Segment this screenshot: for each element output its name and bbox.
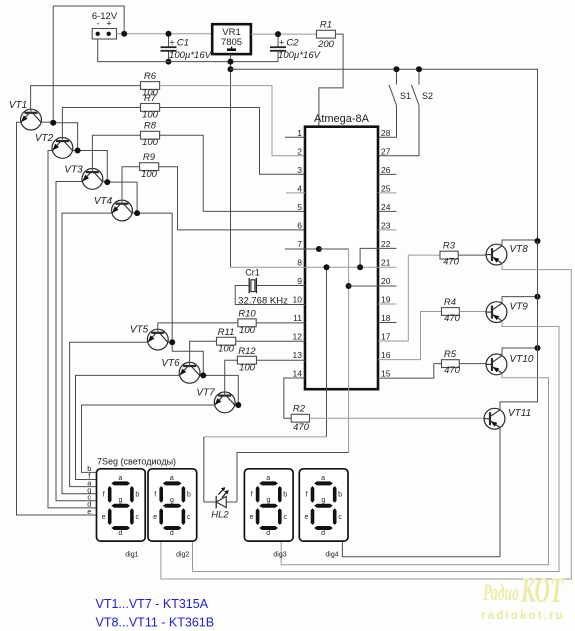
wire VT2 collector (73, 150, 78, 152)
wire chain VT2-VT3 (78, 151, 108, 183)
svg-text:470: 470 (443, 257, 460, 268)
svg-text:a: a (321, 475, 325, 482)
svg-text:7805: 7805 (221, 37, 242, 48)
wire R1 to VCC (319, 34, 343, 249)
pin 24 stub (378, 210, 397, 212)
svg-text:VT4: VT4 (94, 196, 113, 207)
svg-text:7Seg (светодиоды): 7Seg (светодиоды) (97, 457, 176, 467)
wire pin8 GND line (231, 266, 397, 268)
wire VT4 collector (132, 212, 137, 214)
wire pin15 to R5 (378, 364, 442, 379)
node VT1 collector (50, 120, 56, 126)
resistor R10 (238, 319, 256, 327)
svg-text:8: 8 (297, 257, 302, 267)
svg-text:VT10: VT10 (510, 354, 534, 365)
node HL2 gnd junction (324, 264, 330, 270)
svg-text:R11: R11 (218, 327, 235, 338)
svg-text:+: + (106, 19, 111, 29)
wire chain VT5-VT6 (172, 342, 203, 375)
wire chain VT4-VT5 (137, 213, 172, 342)
wire + rail (117, 33, 213, 35)
wire HL2 anode (236, 453, 238, 503)
transistor VT1 (21, 109, 42, 130)
svg-text:13: 13 (293, 350, 303, 360)
node + input junction (121, 31, 127, 37)
wire HL2 cathode drop (203, 437, 205, 502)
svg-text:VT9: VT9 (510, 302, 529, 313)
svg-text:10: 10 (293, 294, 303, 304)
wire pin20 AVCC (349, 285, 397, 287)
wire R7 left to VT2 base (62, 108, 140, 138)
svg-text:11: 11 (293, 313, 302, 323)
wire R6 left to VT1 base (31, 86, 141, 110)
svg-text:470: 470 (444, 313, 461, 324)
transistor VT2 (52, 138, 73, 159)
svg-text:S2: S2 (422, 91, 433, 101)
resistor R6 (141, 82, 160, 90)
svg-text:f: f (306, 492, 308, 499)
svg-text:470: 470 (444, 365, 461, 376)
pin 25 stub (378, 192, 397, 194)
node AVCC pin20 (346, 283, 352, 289)
node C1 bottom (166, 59, 172, 65)
wire VT6 emitter to f (76, 375, 180, 479)
svg-text:b: b (135, 492, 139, 499)
svg-text:Cr1: Cr1 (245, 268, 260, 278)
svg-text:2: 2 (297, 146, 302, 156)
svg-text:f: f (154, 492, 156, 499)
wire R12 right to pin13 (257, 359, 306, 361)
svg-text:200: 200 (317, 39, 335, 50)
resistor R1 (317, 30, 336, 38)
svg-text:d: d (118, 530, 122, 537)
resistor R8 (141, 131, 160, 139)
svg-text:VT11: VT11 (508, 408, 531, 419)
svg-text:100: 100 (218, 344, 235, 355)
svg-text:dig4: dig4 (325, 552, 338, 559)
svg-text:f: f (103, 492, 105, 499)
svg-text:9: 9 (297, 276, 302, 286)
svg-text:b: b (338, 492, 342, 499)
svg-text:3: 3 (297, 165, 302, 175)
node S2 rail (416, 66, 422, 72)
resistor R7 (141, 104, 160, 112)
wire R8 left to VT3 base (92, 135, 140, 168)
wire VT10 collector to dig3 (281, 373, 548, 565)
wire ground rail (98, 39, 278, 62)
wire rail to VT11 emitter (500, 241, 538, 410)
svg-text:a: a (170, 475, 174, 482)
resistor R11 (217, 337, 236, 345)
svg-text:b: b (187, 492, 191, 499)
svg-text:c: c (283, 514, 287, 521)
wire VT7 collector (235, 404, 238, 406)
wire VT8 emitter (502, 240, 538, 246)
wire chain VT1-VT2 (53, 6, 77, 151)
svg-text:1: 1 (297, 128, 302, 138)
wire chain VT3-VT4 (107, 182, 137, 213)
svg-text:a: a (118, 475, 122, 482)
pin 18 stub (378, 322, 397, 324)
wire VR1 output (251, 33, 317, 35)
svg-text:VT8...VT11 - KT361B: VT8...VT11 - KT361B (96, 616, 215, 630)
svg-text:c: c (187, 514, 191, 521)
wire R2 to VT11 base (310, 417, 485, 419)
wire HL2 cathode line (326, 267, 328, 437)
pin 4 stub (286, 192, 305, 194)
transistor VT11 (484, 408, 505, 429)
svg-text:23: 23 (381, 220, 391, 230)
node VT2 collector (75, 148, 81, 154)
resistor R4 (442, 308, 460, 316)
pin 19 stub (378, 303, 397, 305)
svg-text:24: 24 (381, 202, 391, 212)
svg-text:7: 7 (297, 239, 302, 249)
transistor VT9 (486, 302, 507, 323)
transistor VT6 (179, 362, 200, 383)
node VT10 emitter rail (535, 345, 541, 351)
svg-text:R3: R3 (443, 241, 456, 252)
transistor VT10 (486, 354, 507, 375)
svg-text:21: 21 (381, 257, 391, 267)
wire VCC drop to HL2 (348, 249, 350, 453)
switch S2 (418, 69, 420, 84)
svg-text:e: e (153, 514, 157, 521)
wire +batt top rail (53, 6, 124, 34)
svg-text:d: d (266, 530, 270, 537)
pin 23 stub (378, 229, 397, 231)
svg-text:g: g (266, 497, 270, 504)
node VR1 gnd / switch rail (228, 66, 234, 72)
wire VCC to HL2 anode (237, 453, 349, 503)
svg-text:R9: R9 (143, 152, 156, 163)
wire R11 right to pin12 (236, 340, 305, 342)
svg-text:C2: C2 (286, 38, 299, 49)
svg-text:100µ*16V: 100µ*16V (278, 50, 322, 61)
transistor VT5 (147, 329, 168, 350)
svg-text:e: e (305, 514, 309, 521)
node C1 top (166, 31, 172, 37)
wire VT9 collector to dig2 (193, 321, 560, 572)
wire VT1 emitter to e (17, 122, 97, 515)
svg-text:14: 14 (293, 369, 303, 379)
svg-text:28: 28 (381, 128, 391, 138)
svg-text:17: 17 (381, 332, 391, 342)
capacitor C1 (168, 34, 170, 47)
node VT4 collector (134, 210, 140, 216)
wire pin16 to R4 (378, 312, 442, 360)
wire VT3 emitter to c (56, 182, 97, 501)
node VT3 collector (104, 179, 110, 185)
node VT8 emitter rail (535, 238, 541, 244)
capacitor C2 (277, 34, 279, 47)
svg-text:R2: R2 (293, 404, 306, 415)
wire VT1 collector (41, 121, 53, 123)
svg-text:c: c (338, 514, 342, 521)
resistor R5 (442, 360, 460, 368)
wire VT10 emitter (502, 348, 538, 356)
svg-text:VT5: VT5 (130, 325, 149, 336)
svg-text:dig3: dig3 (273, 552, 286, 559)
wire R9 right to pin6 (159, 167, 305, 230)
svg-text:R7: R7 (144, 93, 157, 104)
svg-text:R12: R12 (238, 346, 256, 357)
switch S1 (396, 69, 398, 84)
svg-text:f: f (251, 492, 253, 499)
IC U1 Atmega-8A body (305, 127, 378, 390)
svg-text:c: c (136, 514, 140, 521)
svg-text:100: 100 (141, 169, 158, 180)
svg-text:b: b (283, 492, 287, 499)
pin 1 stub (285, 136, 305, 138)
svg-text:g: g (119, 497, 123, 504)
wire R10 right to pin11 (256, 322, 305, 324)
node VT7 collector (235, 402, 241, 408)
svg-text:100: 100 (239, 363, 256, 374)
resistor R3 (440, 251, 458, 259)
node S1 rail (394, 66, 400, 72)
svg-text:R8: R8 (144, 121, 157, 132)
wire R10 left to VT5 base (158, 323, 238, 329)
transistor VT4 (112, 200, 133, 221)
wire pin22 AGND internal (360, 248, 396, 267)
svg-text:dig1: dig1 (125, 552, 138, 559)
crystal Cr1 (257, 285, 305, 287)
display dig2 (148, 469, 197, 541)
transistor VT7 (214, 392, 235, 413)
wire R5 to VT10 base (459, 363, 486, 365)
svg-text:15: 15 (381, 369, 391, 379)
svg-text:100: 100 (142, 137, 159, 148)
svg-text:КОТ: КОТ (520, 570, 564, 610)
wire R9 left to VT4 base (122, 167, 140, 200)
svg-text:19: 19 (381, 294, 391, 304)
LED HL2 (216, 496, 226, 507)
wire VT4 emitter to g (62, 213, 112, 494)
pin 7 VCC wire (285, 248, 319, 250)
wire pin17 to R3 (378, 255, 440, 341)
svg-text:g: g (170, 497, 174, 504)
wire R8 right to pin5 (160, 135, 305, 211)
svg-text:Atmega-8A: Atmega-8A (314, 113, 370, 125)
svg-text:-: - (97, 19, 100, 29)
svg-text:26: 26 (381, 165, 391, 175)
node VT9 emitter rail (535, 294, 541, 300)
svg-text:R1: R1 (320, 20, 332, 31)
svg-text:R10: R10 (238, 309, 256, 320)
svg-text:e: e (102, 514, 106, 521)
node VT6 collector (200, 372, 206, 378)
display dig1 (97, 469, 146, 541)
resistor R9 (140, 163, 159, 171)
svg-text:27: 27 (381, 146, 391, 156)
wire R3 to VT8 base (458, 254, 486, 256)
svg-text:5: 5 (297, 202, 302, 212)
svg-text:22: 22 (381, 239, 391, 249)
wire VT2 emitter to d (48, 151, 97, 508)
svg-text:R6: R6 (144, 71, 157, 82)
svg-text:g: g (321, 497, 325, 504)
svg-text:d: d (321, 530, 325, 537)
wire VT11 collector to dig4 (342, 428, 500, 557)
svg-text:VT1...VT7 - KT315A: VT1...VT7 - KT315A (96, 597, 209, 611)
svg-text:470: 470 (293, 422, 310, 433)
transistor VT8 (486, 244, 507, 265)
svg-text:+: + (169, 38, 174, 48)
transistor VT3 (82, 169, 103, 190)
resistor R12 (237, 356, 256, 364)
svg-text:4: 4 (297, 183, 302, 193)
svg-text:12: 12 (293, 332, 303, 342)
svg-text:VT2: VT2 (35, 133, 54, 144)
node C2 top (275, 31, 281, 37)
svg-text:e: e (87, 507, 91, 516)
display dig4 (299, 469, 348, 541)
wire VT6 collector (200, 374, 203, 376)
svg-text:Радио: Радио (482, 580, 519, 605)
node pin22 to gnd line (357, 264, 363, 270)
display dig3 (244, 469, 293, 541)
wire HL2 cathode run (204, 436, 327, 438)
svg-text:a: a (266, 475, 270, 482)
svg-text:R4: R4 (444, 297, 456, 308)
svg-text:25: 25 (381, 183, 391, 193)
svg-text:VT1: VT1 (9, 100, 27, 111)
wire chain VT6-VT7 (203, 375, 238, 405)
svg-text:16: 16 (381, 350, 391, 360)
voltage regulator VR1 7805 (212, 24, 251, 54)
svg-text:R5: R5 (444, 349, 457, 360)
wire VT5 emitter to a (70, 342, 148, 486)
svg-text:C1: C1 (177, 38, 189, 49)
svg-text:100µ*16V: 100µ*16V (169, 50, 213, 61)
wire VCC internal (319, 248, 349, 250)
wire VT8 collector to dig1 (161, 263, 571, 579)
wire ground rail right (231, 69, 538, 241)
pin 26 stub (378, 173, 397, 175)
svg-text:HL2: HL2 (211, 510, 229, 521)
svg-text:20: 20 (381, 276, 391, 286)
svg-text:VT3: VT3 (64, 165, 83, 176)
wire R7 right to pin3 (160, 108, 305, 175)
wire R6 right to pin2 (160, 86, 305, 156)
wire VT7 emitter to b (82, 405, 215, 472)
wire VR1 ground lead (230, 54, 232, 267)
wire R4 to VT9 base (459, 311, 486, 313)
svg-text:S1: S1 (400, 91, 411, 101)
node VR1 gnd / C rail (228, 59, 234, 65)
wire VT3 collector (103, 181, 108, 183)
svg-text:100: 100 (239, 325, 256, 336)
svg-text:32.768 KHz: 32.768 KHz (238, 296, 288, 307)
wire VT9 emitter (502, 297, 538, 304)
svg-text:dig2: dig2 (176, 552, 189, 559)
svg-text:6: 6 (297, 220, 302, 230)
svg-text:d: d (170, 530, 174, 537)
wire R12 left to VT7 base (225, 360, 238, 392)
node VT5 collector (169, 339, 175, 345)
resistor R2 (291, 414, 309, 422)
wire R11 left to VT6 base (190, 341, 217, 362)
power connector 6-12V (92, 29, 116, 40)
svg-text:100: 100 (142, 110, 159, 121)
svg-text:VT7: VT7 (196, 388, 215, 399)
svg-text:+: + (279, 38, 284, 48)
wire pin14 to R2 (284, 378, 305, 418)
svg-text:18: 18 (381, 313, 391, 323)
svg-text:VT8: VT8 (510, 244, 529, 255)
svg-text:e: e (250, 514, 254, 521)
svg-text:radiokot.ru: radiokot.ru (481, 610, 565, 622)
wire VT5 collector (168, 341, 172, 343)
svg-text:VT6: VT6 (161, 358, 180, 369)
node VCC pin7 (316, 246, 322, 252)
